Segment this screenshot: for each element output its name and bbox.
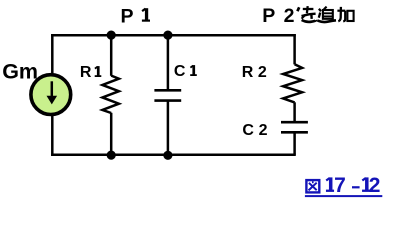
label R1 — [80, 64, 101, 81]
capacitor C1 — [154, 90, 181, 100]
wire left rail — [51, 34, 54, 156]
svg-text:Gm: Gm — [2, 59, 38, 83]
wire right rail bottom — [293, 132, 296, 154]
svg-text:C: C — [174, 63, 186, 80]
label C2 — [242, 122, 267, 139]
wire right rail middle — [293, 102, 296, 122]
svg-text:R: R — [80, 64, 92, 81]
kanji wo — [302, 6, 317, 22]
node junction dot bottom right — [163, 151, 172, 160]
kanji zu (figure) blue — [306, 180, 319, 192]
label figure number 17-12 — [326, 174, 380, 197]
svg-text:2: 2 — [284, 5, 295, 27]
kanji ka — [337, 7, 353, 21]
label C1 — [174, 63, 197, 80]
wire C1 branch top — [167, 35, 170, 90]
wire bottom rail — [51, 153, 296, 156]
wire top rail — [51, 34, 296, 37]
wire C1 branch bottom — [167, 101, 170, 155]
svg-text:R: R — [242, 64, 254, 81]
node junction dot bottom left — [107, 151, 116, 160]
wire R1 branch bottom — [110, 113, 113, 155]
resistor R2 — [283, 64, 302, 102]
svg-text:2: 2 — [258, 64, 267, 81]
svg-text:C: C — [242, 122, 254, 139]
svg-text:2: 2 — [369, 174, 381, 197]
node junction dot top right — [163, 30, 172, 39]
figure link underline — [305, 195, 382, 197]
capacitor C2 — [281, 122, 308, 132]
kanji tsui — [318, 7, 337, 22]
label P 1 — [121, 5, 151, 27]
svg-text:2: 2 — [259, 122, 268, 139]
wire R1 branch top — [110, 35, 113, 76]
svg-text:P: P — [121, 5, 134, 27]
node P1 junction dot top left — [107, 30, 116, 39]
svg-text:7: 7 — [334, 174, 346, 197]
resistor R1 — [102, 76, 119, 113]
current source Gm — [31, 75, 71, 115]
label R2 — [242, 64, 267, 81]
label P 2' — [262, 5, 299, 27]
wire right rail top — [293, 34, 296, 64]
svg-text:P: P — [262, 5, 275, 27]
